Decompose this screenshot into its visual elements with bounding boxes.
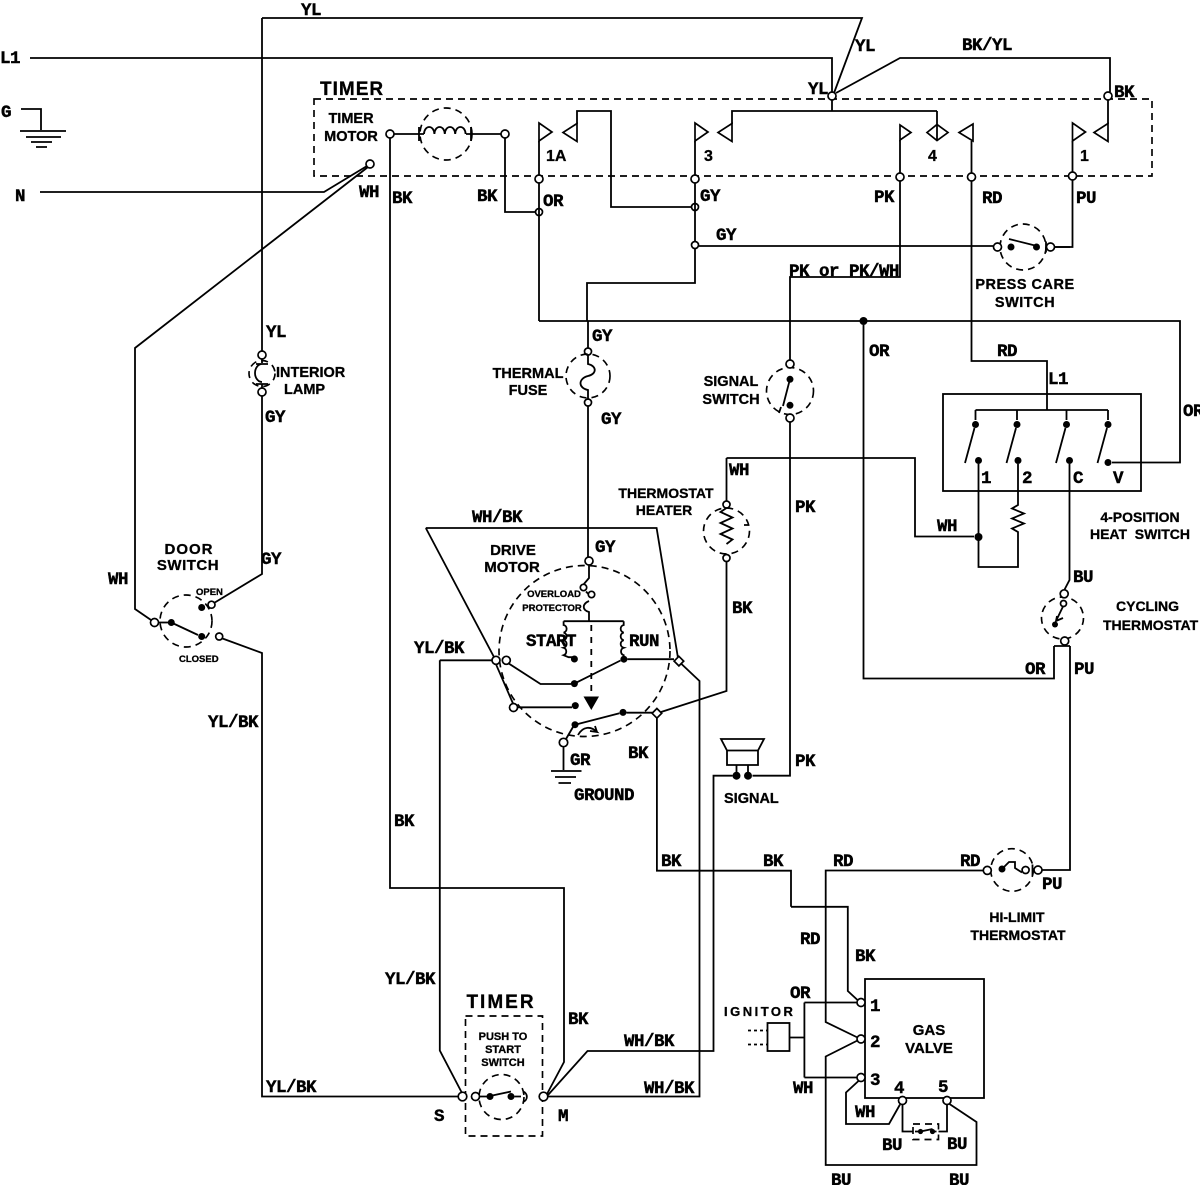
svg-text:SWITCH: SWITCH [702, 392, 759, 408]
wire YL top run [262, 18, 862, 93]
svg-text:WH: WH [359, 183, 379, 203]
svg-text:M: M [558, 1107, 568, 1127]
wire OR down to cycling thermostat [864, 325, 1055, 679]
svg-text:PUSH TO: PUSH TO [479, 1031, 528, 1043]
svg-text:YL/BK: YL/BK [385, 970, 436, 990]
svg-text:BU: BU [947, 1135, 967, 1155]
svg-text:BU: BU [949, 1171, 969, 1185]
svg-text:RD: RD [800, 930, 820, 950]
svg-text:FUSE: FUSE [509, 383, 548, 399]
wire GY vertical from contact 3 [587, 183, 695, 321]
svg-text:PK: PK [795, 752, 816, 772]
svg-text:PK: PK [874, 188, 895, 208]
timer box dashed outline [314, 99, 1152, 176]
wire BU heat switch C to cycling thermostat [1064, 464, 1069, 590]
svg-text:MOTOR: MOTOR [484, 559, 540, 576]
svg-text:C: C [1073, 469, 1084, 489]
wire BK/YL run [836, 58, 1110, 93]
svg-text:GR: GR [570, 751, 591, 771]
wire OR from 1A down [538, 183, 540, 321]
heat switch feed and bus [976, 394, 1109, 420]
terminal BK side (diamond) [652, 709, 662, 719]
wire 1A right bracket junction [692, 204, 699, 211]
svg-text:WH: WH [793, 1079, 813, 1099]
door switch S1 [160, 595, 212, 647]
svg-text:5: 5 [938, 1078, 948, 1098]
wire WH to heat switch [727, 458, 975, 537]
curved arrow decoration [578, 726, 597, 735]
svg-text:BK: BK [732, 599, 753, 619]
overload protector [584, 565, 592, 621]
run winding dot [620, 656, 627, 663]
svg-text:PROTECTOR: PROTECTOR [522, 603, 582, 614]
junction GY to press care [692, 242, 699, 249]
svg-text:BU: BU [1073, 568, 1093, 588]
svg-text:BK: BK [855, 947, 876, 967]
wire L1 line [30, 58, 832, 92]
wire WH/BK buzzer to push-to-start M [548, 776, 733, 1095]
svg-text:VALVE: VALVE [905, 1040, 953, 1057]
svg-text:RD: RD [982, 189, 1002, 209]
cycling thermostat S5 [1042, 597, 1084, 639]
svg-text:CYCLING: CYCLING [1116, 598, 1179, 614]
svg-text:LAMP: LAMP [284, 382, 325, 398]
wire BK from coil right terminal [505, 138, 535, 212]
svg-text:GY: GY [700, 187, 721, 207]
svg-text:START: START [485, 1044, 521, 1056]
svg-text:3: 3 [704, 148, 713, 165]
terminal WH of timer motor [366, 160, 374, 168]
signal buzzer [721, 739, 764, 772]
svg-text:PK or PK/WH: PK or PK/WH [789, 262, 899, 282]
heat switch poles [972, 421, 979, 428]
interior lamp DS1 [249, 361, 275, 387]
svg-text:GY: GY [716, 226, 737, 246]
svg-text:OR: OR [543, 192, 564, 212]
gas valve terminal 3 [857, 1074, 865, 1082]
centrifugal arrow [584, 697, 600, 711]
svg-text:G: G [1, 103, 11, 123]
timer contact 4 [900, 111, 972, 173]
svg-text:OR: OR [1025, 660, 1046, 680]
svg-text:MOTOR: MOTOR [324, 129, 378, 145]
svg-text:BK: BK [661, 852, 682, 872]
svg-text:4-POSITION: 4-POSITION [1100, 509, 1179, 525]
svg-text:BK: BK [394, 812, 415, 832]
svg-text:SIGNAL: SIGNAL [704, 374, 759, 390]
terminal PU of contact 1 [1069, 172, 1077, 180]
junction BK-OR [536, 209, 543, 216]
gas valve terminal 4 [899, 1097, 907, 1105]
4-position heat switch box [943, 394, 1141, 491]
wire WH/BK run terminal down to push-to-start M [548, 664, 700, 1097]
terminal PK of contact 4 [896, 173, 904, 181]
svg-text:2: 2 [1022, 469, 1032, 489]
timer motor coil M1 [420, 108, 472, 160]
svg-text:1A: 1A [546, 148, 567, 165]
svg-text:PU: PU [1076, 189, 1096, 209]
run winding [621, 621, 624, 656]
svg-text:HI-LIMIT: HI-LIMIT [989, 909, 1045, 925]
push to start contacts [487, 1093, 494, 1100]
terminal BK of contact 1 on timer box [1104, 92, 1112, 100]
gas valve terminal 1 [857, 999, 865, 1007]
svg-text:SIGNAL: SIGNAL [724, 791, 779, 807]
flame sensor switch [903, 1105, 914, 1132]
svg-text:RUN: RUN [629, 632, 659, 652]
svg-text:HEAT SWITCH: HEAT SWITCH [1090, 526, 1190, 542]
svg-text:WH: WH [108, 570, 128, 590]
svg-text:TIMER: TIMER [466, 992, 535, 1013]
svg-text:GY: GY [601, 410, 622, 430]
svg-text:1: 1 [870, 997, 880, 1017]
svg-text:START: START [526, 632, 576, 652]
svg-text:BK: BK [568, 1010, 589, 1030]
svg-text:INTERIOR: INTERIOR [276, 365, 346, 381]
gas valve box [865, 979, 984, 1098]
svg-text:YL: YL [808, 80, 828, 100]
svg-text:WH: WH [729, 461, 749, 481]
motor contact row3 [510, 704, 518, 712]
gas valve terminal 5 [943, 1097, 951, 1105]
svg-text:YL: YL [301, 1, 321, 21]
wire OR bus y321 [539, 321, 1180, 463]
svg-text:WH: WH [855, 1103, 875, 1123]
junction WH at heat switch 1 [975, 533, 983, 541]
heat switch resistor R1 [979, 464, 1025, 567]
svg-text:YL: YL [855, 37, 875, 57]
wire GY lamp to door switch [214, 396, 262, 603]
timer contact 1 [1073, 100, 1109, 172]
svg-text:BU: BU [882, 1136, 902, 1156]
svg-text:BK: BK [477, 187, 498, 207]
junction OR branch [860, 317, 868, 325]
svg-text:THERMOSTAT: THERMOSTAT [618, 485, 714, 501]
start winding dot [571, 656, 578, 663]
svg-text:PRESS CARE: PRESS CARE [975, 277, 1074, 293]
terminal GY drive motor [585, 557, 593, 565]
ground G chassis symbol [20, 109, 66, 147]
terminal S [458, 1092, 467, 1101]
svg-text:3: 3 [870, 1071, 880, 1091]
svg-text:4: 4 [894, 1079, 904, 1099]
wire run dot to harness terminal [627, 658, 674, 660]
svg-text:N: N [15, 187, 25, 207]
wire WH jumper gas valve 3 to 4 [846, 1081, 900, 1125]
terminal GY of contact 3 [691, 175, 699, 183]
wire BK motor to gas valve 1 [657, 718, 791, 907]
svg-text:CLOSED: CLOSED [179, 654, 219, 665]
svg-text:V: V [1113, 469, 1124, 489]
terminal OR of contact 1A [535, 175, 543, 183]
svg-text:GY: GY [265, 408, 286, 428]
hi-limit thermostat S4 [991, 849, 1034, 892]
svg-text:BK/YL: BK/YL [962, 36, 1012, 56]
svg-text:WH/BK: WH/BK [644, 1079, 695, 1099]
motor contact row1 YL/BK terminals [492, 656, 500, 664]
svg-text:DOOR: DOOR [165, 541, 214, 558]
wire WH diagonal to door switch [135, 167, 368, 620]
svg-text:PU: PU [1042, 875, 1062, 895]
thermal fuse F1 [587, 321, 589, 348]
junction YL feed stem [828, 92, 836, 100]
wire BK heater to motor contact [661, 562, 727, 713]
wire PK signal switch to buzzer [753, 422, 791, 776]
svg-text:L1: L1 [0, 49, 20, 69]
press care switch S2 [1000, 224, 1046, 270]
svg-text:OR: OR [1183, 402, 1200, 422]
svg-text:4: 4 [928, 148, 937, 165]
svg-text:BK: BK [763, 852, 784, 872]
svg-text:BK: BK [628, 744, 649, 764]
wire RD from contact 4 to heat switch L1 [972, 181, 1048, 394]
wire RD hi-limit to gas valve 2 [826, 871, 984, 1166]
gas valve terminal 2 [857, 1035, 865, 1043]
wire N line to timer motor WH terminal [40, 166, 367, 192]
svg-text:BK: BK [392, 189, 413, 209]
svg-text:2: 2 [870, 1033, 880, 1053]
svg-text:TIMER: TIMER [320, 79, 384, 100]
signal switch S3 [767, 368, 814, 415]
svg-text:PU: PU [1074, 660, 1094, 680]
svg-text:SWITCH: SWITCH [157, 557, 219, 574]
svg-text:TIMER: TIMER [328, 111, 374, 127]
motor windings header [564, 620, 624, 622]
svg-text:SWITCH: SWITCH [481, 1057, 524, 1069]
terminal run side (diamond) [674, 656, 684, 666]
svg-text:RD: RD [833, 852, 853, 872]
motor contact row4 centrifugal [572, 721, 579, 728]
svg-text:OR: OR [869, 342, 890, 362]
svg-text:YL/BK: YL/BK [266, 1078, 317, 1098]
svg-text:WH/BK: WH/BK [472, 508, 523, 528]
svg-text:WH/BK: WH/BK [624, 1032, 675, 1052]
thermostat heater R2 [726, 458, 728, 501]
svg-text:RD: RD [997, 342, 1017, 362]
motor harness funnel WH/BK [426, 528, 678, 658]
svg-text:THERMOSTAT: THERMOSTAT [970, 927, 1066, 943]
drive motor dashed circle [499, 566, 670, 737]
terminal M [539, 1092, 548, 1101]
svg-text:OR: OR [790, 984, 811, 1004]
svg-text:HEATER: HEATER [636, 502, 693, 518]
svg-text:YL/BK: YL/BK [414, 639, 465, 659]
svg-text:GY: GY [261, 550, 282, 570]
wire GR to ground [566, 727, 573, 739]
svg-text:OVERLOAD: OVERLOAD [527, 589, 581, 600]
svg-text:WH: WH [937, 517, 957, 537]
svg-text:GY: GY [595, 538, 616, 558]
wire BK from timer motor left terminal down to push-to-start M [390, 138, 564, 1094]
svg-text:S: S [434, 1107, 444, 1127]
wire YL/BK from door closed contact to push-to-start S [223, 639, 459, 1097]
wire PU from contact 1 to press care [1055, 180, 1073, 247]
timer contact 3 [694, 141, 696, 175]
svg-text:L1: L1 [1048, 370, 1068, 390]
terminal RD of contact 4 [968, 173, 976, 181]
svg-text:BU: BU [831, 1171, 851, 1185]
svg-text:RD: RD [960, 852, 980, 872]
svg-text:THERMAL: THERMAL [493, 366, 564, 382]
svg-text:1: 1 [1080, 148, 1089, 165]
wire YL/BK right branch to S [440, 660, 492, 1093]
wire YL vertical to interior lamp [261, 18, 263, 351]
timer contact 1A [538, 141, 540, 175]
svg-text:1: 1 [981, 469, 991, 489]
start winding [564, 621, 575, 659]
svg-text:YL: YL [266, 323, 286, 343]
svg-text:OPEN: OPEN [196, 587, 223, 598]
svg-text:GROUND: GROUND [574, 786, 634, 806]
centrifugal axis dashed [590, 625, 592, 694]
svg-text:DRIVE: DRIVE [490, 542, 536, 559]
svg-text:SWITCH: SWITCH [995, 295, 1055, 311]
motor start switch blade row1 [508, 663, 571, 684]
wire PK or PK/WH to signal switch [790, 181, 900, 360]
svg-text:BK: BK [1114, 83, 1135, 103]
svg-text:PK: PK [795, 498, 816, 518]
svg-text:IGNITOR: IGNITOR [724, 1004, 795, 1019]
wire GY to press care switch [699, 245, 993, 247]
svg-text:YL/BK: YL/BK [208, 713, 259, 733]
svg-text:THERMOSTAT: THERMOSTAT [1103, 617, 1199, 633]
svg-text:GY: GY [592, 327, 613, 347]
svg-text:GAS: GAS [913, 1022, 946, 1039]
